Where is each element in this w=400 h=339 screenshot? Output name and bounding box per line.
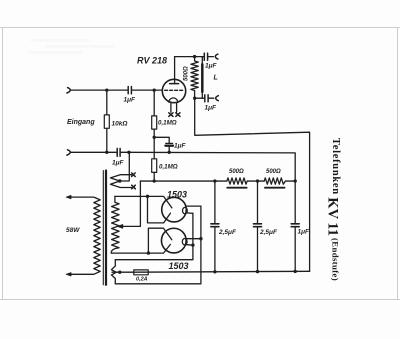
- node A junction of 0,1M resistors and 1uF: [153, 136, 156, 139]
- node: lower filament joins bus: [191, 243, 194, 246]
- svg-text:L: L: [214, 75, 218, 82]
- inductor L choke: [201, 57, 203, 65]
- faint bleed-through smudges top left: [28, 39, 115, 54]
- svg-text:0,2A: 0,2A: [136, 276, 148, 282]
- transformer core: [102, 171, 104, 285]
- node: lower anode junction: [147, 251, 150, 254]
- wire: filament bus right (x=201): [115, 206, 201, 284]
- svg-text:2,5μF: 2,5μF: [218, 229, 237, 236]
- filament legs RV218: [171, 103, 177, 113]
- wire: plate top line: [175, 56, 204, 58]
- svg-text:1μF: 1μF: [205, 63, 218, 70]
- capacitor 2,5uF first: [214, 181, 216, 272]
- capacitor 1uF output top: [204, 53, 207, 60]
- resistor 500 ohm filter 1: [227, 178, 247, 184]
- svg-text:500Ω: 500Ω: [266, 169, 281, 175]
- node: filament winding CT: [118, 179, 121, 182]
- input terminal bottom: [67, 150, 70, 155]
- plate lead RV218: [174, 57, 176, 84]
- X mark heater ref right: [176, 113, 180, 117]
- output terminal top: [215, 54, 218, 59]
- mains arrow bottom: [66, 273, 71, 276]
- rectifier tube 1503 upper envelope: [162, 197, 187, 222]
- X mark winding ref bottom: [132, 185, 136, 189]
- resistor 500 ohm filter 2: [264, 178, 285, 184]
- wire: lower filament bottom loop: [187, 244, 193, 246]
- wire: lower 1503 anode upper lead: [148, 228, 171, 253]
- svg-text:1μF: 1μF: [298, 229, 311, 236]
- capacitor 2,5uF second: [257, 181, 259, 272]
- resistor 10k: [106, 90, 108, 152]
- wire: HV CT to bias rail: [122, 181, 140, 226]
- svg-text:Eingang: Eingang: [67, 119, 95, 126]
- wire: lower filament top lead: [186, 238, 201, 240]
- node: upper anode junction: [146, 195, 149, 198]
- node: cap2 on bottom rail: [256, 270, 259, 273]
- svg-text:0,1MΩ: 0,1MΩ: [159, 164, 178, 171]
- fuse 0,2A: [134, 270, 148, 275]
- wirewound bar R1: [227, 187, 246, 189]
- svg-text:KV 11: KV 11: [325, 197, 341, 236]
- node: 10k bottom on lower line: [105, 151, 108, 154]
- capacitor C 1uF (grid coupling): [128, 87, 131, 94]
- wire: rect filament CT to fuse: [112, 271, 134, 273]
- svg-text:1μF: 1μF: [174, 143, 187, 150]
- anode bar RV218: [170, 83, 179, 85]
- svg-text:(Endstufe): (Endstufe): [331, 238, 341, 281]
- svg-text:Telefunken: Telefunken: [330, 138, 341, 195]
- resistor 0,1M grid leak upper: [153, 90, 155, 159]
- svg-text:1μF: 1μF: [112, 160, 125, 167]
- X mark winding ref top: [132, 173, 136, 177]
- X mark heater ref left: [169, 113, 173, 117]
- output terminal bottom: [216, 96, 219, 101]
- node: rect filament CT: [118, 271, 121, 274]
- mains arrow top: [66, 195, 71, 198]
- node: 1uF electrolytic on lower line: [168, 151, 171, 154]
- svg-text:500Ω: 500Ω: [229, 169, 244, 175]
- capacitor 1uF (lower input line): [117, 148, 120, 156]
- svg-text:1503: 1503: [169, 261, 189, 271]
- filament loop lower 1503: [182, 239, 187, 245]
- rectifier filament winding (chevrons): [111, 260, 116, 272]
- wire: lower input line (common) to right side: [70, 152, 295, 181]
- input terminal top: [67, 88, 70, 93]
- op-amp triode RV218 envelope: [162, 79, 185, 102]
- wire: bias rail: [140, 180, 295, 182]
- node: rail cap2: [256, 179, 259, 182]
- primary winding 58W: [70, 197, 100, 274]
- filament arc RV218: [169, 98, 178, 102]
- capacitor 1uF third: [294, 181, 296, 271]
- node: lower filament top joins bus: [199, 237, 202, 240]
- svg-text:1μF: 1μF: [205, 105, 218, 112]
- wire to top output terminal: [208, 56, 214, 58]
- node: junction grid leak / top line: [153, 88, 156, 91]
- wire: B+ feed from bottom rail to plate network: [195, 98, 310, 271]
- svg-text:10kΩ: 10kΩ: [112, 121, 128, 128]
- side caption Telefunken KV 11 (Endstufe): [325, 138, 342, 281]
- svg-text:2,5μF: 2,5μF: [259, 229, 278, 236]
- node: cap3 on bottom rail: [294, 270, 297, 273]
- svg-text:500Ω: 500Ω: [184, 66, 190, 81]
- node: 500 ohm bottom junction: [193, 97, 196, 100]
- resistor 0,1M lower: [152, 159, 157, 173]
- capacitor 1uF output bottom: [205, 95, 208, 102]
- resistor 500 ohm vertical plate load: [191, 57, 198, 99]
- grid dashes RV218: [165, 89, 183, 91]
- wire: upper filament top lead: [186, 205, 201, 207]
- svg-text:1μF: 1μF: [124, 97, 137, 104]
- node: plate line / 500 ohm top: [193, 55, 196, 58]
- node: junction 10k / top line: [105, 88, 108, 91]
- wire: upper filament bottom lead: [187, 212, 193, 214]
- svg-text:58W: 58W: [66, 227, 80, 234]
- wire: lower output line: [195, 97, 214, 99]
- filament loop upper 1503: [183, 207, 188, 213]
- svg-text:0,1MΩ: 0,1MΩ: [158, 120, 177, 127]
- wire: bottom B+ rail: [134, 270, 310, 273]
- node: cap1 on bottom rail: [213, 270, 216, 273]
- HV winding CT arrow: [117, 225, 122, 229]
- node: rail cap1: [213, 179, 216, 182]
- node: 0,1M bottom on bias rail: [153, 179, 156, 182]
- HV winding (center tapped): [111, 196, 119, 253]
- node: rail end cap3: [294, 179, 297, 182]
- wire: top input line to grid: [70, 89, 162, 91]
- capacitor 1uF electrolytic: [154, 137, 169, 152]
- wire: HV top to upper 1503 anode: [115, 196, 172, 208]
- node: filament CT riser on lower line: [127, 151, 130, 154]
- wire: HV bottom to lower 1503: [113, 244, 170, 253]
- svg-text:RV 218: RV 218: [137, 56, 167, 66]
- rectifier tube 1503 lower envelope: [161, 228, 186, 253]
- wire: upper anode lower lead: [148, 196, 171, 223]
- wire: filament bus left (x=193): [115, 213, 193, 259]
- wirewound bar R2: [265, 187, 285, 189]
- filament winding RV218 (chevron taps): [110, 152, 131, 181]
- svg-text:1503: 1503: [167, 190, 187, 200]
